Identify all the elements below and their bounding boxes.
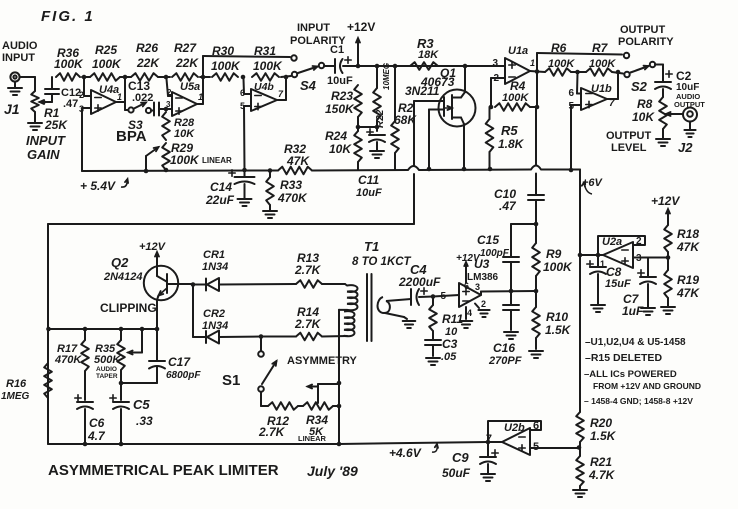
R35 wiper to rail bbox=[128, 327, 144, 355]
svg-text:3: 3 bbox=[475, 282, 480, 292]
svg-text:C2: C2 bbox=[676, 69, 692, 83]
svg-text:INPUT: INPUT bbox=[2, 52, 35, 64]
svg-text:50uF: 50uF bbox=[442, 466, 471, 480]
svg-text:2.7K: 2.7K bbox=[294, 263, 322, 277]
svg-text:2.7K: 2.7K bbox=[294, 317, 322, 331]
svg-text:R10: R10 bbox=[546, 310, 568, 324]
+12V arrow (input bias) bbox=[347, 20, 375, 66]
capacitor C12 bbox=[45, 77, 81, 110]
wire U4a pin3 to +5.4V rail bbox=[82, 108, 91, 171]
clipping label bbox=[100, 301, 157, 315]
svg-text:6: 6 bbox=[533, 420, 539, 432]
svg-text:TAPER: TAPER bbox=[96, 373, 118, 380]
svg-text:LINEAR: LINEAR bbox=[202, 156, 232, 165]
capacitor C11 bbox=[356, 127, 385, 199]
resistor R22 (10MEG) bbox=[373, 63, 391, 129]
wire Q1 source to rail bbox=[462, 124, 467, 171]
svg-text:R27: R27 bbox=[174, 41, 197, 55]
op-amp U3 (LM386) bbox=[440, 253, 498, 328]
resistor R2 bbox=[391, 64, 417, 170]
wire J1 to R1 bbox=[20, 77, 35, 91]
svg-text:100K: 100K bbox=[54, 57, 84, 71]
svg-text:U1b: U1b bbox=[591, 83, 612, 95]
svg-text:S4: S4 bbox=[300, 78, 317, 93]
asymmetry label bbox=[287, 355, 358, 367]
capacitor C14 bbox=[205, 170, 255, 207]
svg-text:4: 4 bbox=[467, 308, 472, 318]
svg-text:100K: 100K bbox=[548, 58, 575, 70]
svg-text:OUTPUT: OUTPUT bbox=[620, 24, 666, 36]
svg-text:1: 1 bbox=[530, 58, 535, 68]
op-amp U1b bbox=[568, 83, 615, 112]
svg-text:6: 6 bbox=[568, 88, 574, 99]
resistor R14 bbox=[261, 305, 347, 340]
svg-text:U2a: U2a bbox=[602, 236, 622, 248]
svg-text:10K: 10K bbox=[632, 110, 655, 124]
svg-text:25K: 25K bbox=[44, 118, 68, 132]
output polarity label bbox=[618, 24, 674, 48]
svg-text:R7: R7 bbox=[592, 41, 609, 55]
svg-text:R22: R22 bbox=[375, 109, 386, 128]
svg-text:6800pF: 6800pF bbox=[166, 370, 201, 381]
svg-text:ASYMMETRICAL PEAK LIMITER: ASYMMETRICAL PEAK LIMITER bbox=[48, 462, 279, 479]
svg-text:100K: 100K bbox=[170, 153, 200, 167]
capacitor C16 bbox=[488, 291, 522, 367]
wire U1b pin6 feedback bbox=[577, 74, 581, 94]
svg-text:R33: R33 bbox=[280, 178, 302, 192]
svg-text:GAIN: GAIN bbox=[27, 147, 60, 162]
resistor R3 bbox=[410, 36, 439, 70]
svg-text:3N211: 3N211 bbox=[405, 84, 440, 98]
svg-text:R9: R9 bbox=[546, 247, 562, 261]
svg-text:47K: 47K bbox=[676, 240, 700, 254]
svg-text:FROM +12V AND GROUND: FROM +12V AND GROUND bbox=[593, 381, 701, 391]
svg-text:100K: 100K bbox=[92, 57, 122, 71]
transformer T1 bbox=[339, 239, 415, 341]
node R25/R26 (U4a out) bbox=[123, 75, 128, 80]
svg-text:.47: .47 bbox=[499, 199, 517, 213]
resistor R12 bbox=[258, 402, 298, 439]
op-amp U2a bbox=[598, 236, 645, 269]
svg-text:–R15 DELETED: –R15 DELETED bbox=[585, 352, 662, 364]
node U2a out/C8 bbox=[596, 253, 601, 258]
svg-text:100pF: 100pF bbox=[480, 248, 510, 259]
svg-text:470K: 470K bbox=[277, 191, 308, 205]
svg-text:.33: .33 bbox=[136, 414, 153, 428]
wire U4b pin5 down bbox=[244, 106, 251, 170]
svg-text:18K: 18K bbox=[418, 49, 439, 61]
clipping rail bbox=[46, 327, 157, 332]
capacitor C17 bbox=[119, 329, 202, 385]
resistor R17 bbox=[54, 327, 89, 400]
wire +6V bus down bbox=[579, 255, 581, 412]
wire Q2 base to diodes bbox=[167, 282, 195, 287]
svg-text:2200uF: 2200uF bbox=[398, 275, 441, 289]
wire U4b pin6 feedback bbox=[244, 79, 252, 94]
svg-text:2N4124: 2N4124 bbox=[103, 271, 143, 283]
svg-text:– 1458-4 GND; 1458-8 +12V: – 1458-4 GND; 1458-8 +12V bbox=[584, 396, 693, 406]
svg-text:C14: C14 bbox=[210, 180, 232, 194]
node R36/R25 bbox=[82, 75, 88, 80]
svg-text:+12V: +12V bbox=[651, 194, 680, 208]
resistor R6 bbox=[537, 41, 575, 76]
capacitor C15 bbox=[477, 224, 519, 293]
capacitor C9 bbox=[442, 442, 498, 481]
node R27/R30 bbox=[200, 75, 210, 80]
svg-text:22K: 22K bbox=[175, 56, 199, 70]
wire U2a pin3 out bbox=[633, 255, 670, 260]
wire C15 top bbox=[511, 222, 538, 227]
svg-text:100K: 100K bbox=[589, 58, 616, 70]
svg-text:S1: S1 bbox=[222, 372, 240, 389]
svg-text:1.8K: 1.8K bbox=[498, 137, 525, 151]
svg-text:15uF: 15uF bbox=[605, 278, 631, 290]
svg-text:C17: C17 bbox=[168, 355, 191, 369]
node R23/R24 bbox=[356, 117, 377, 131]
potentiometer R29 bbox=[162, 141, 232, 172]
svg-text:J2: J2 bbox=[678, 140, 693, 155]
svg-text:R16: R16 bbox=[6, 378, 27, 390]
svg-text:C15: C15 bbox=[477, 233, 499, 247]
svg-text:10uF: 10uF bbox=[327, 75, 353, 87]
svg-text:R19: R19 bbox=[677, 273, 699, 287]
svg-text:10uF: 10uF bbox=[356, 187, 382, 199]
svg-text:J1: J1 bbox=[4, 101, 20, 117]
R34 wiper bbox=[308, 384, 340, 403]
svg-text:R26: R26 bbox=[136, 41, 158, 55]
svg-text:Q2: Q2 bbox=[111, 255, 129, 270]
wire U5a output bbox=[197, 56, 203, 104]
svg-text:22uF: 22uF bbox=[205, 193, 235, 207]
resistor R23 bbox=[325, 85, 362, 117]
+4.6V rail (bottom) bbox=[48, 442, 488, 444]
bpa label bbox=[116, 128, 147, 145]
output level label bbox=[606, 130, 652, 154]
svg-text:C6: C6 bbox=[89, 416, 105, 430]
transistor Q2 bbox=[103, 255, 178, 300]
jack J2 bbox=[666, 108, 697, 156]
node R26/R27 bbox=[160, 75, 170, 80]
notes bbox=[584, 337, 701, 406]
+12V arrow Q2 collector bbox=[139, 241, 167, 276]
diode CR1 bbox=[193, 249, 296, 291]
capacitor C4 bbox=[398, 262, 441, 305]
capacitor C13 bbox=[128, 79, 166, 116]
svg-text:LINEAR: LINEAR bbox=[298, 434, 327, 443]
wire Q1 drain to rail bbox=[463, 64, 468, 92]
potentiometer R35 bbox=[94, 327, 125, 383]
node R23 top bbox=[356, 64, 361, 69]
wire U3 output bbox=[481, 291, 536, 295]
wire U1a pin2 down bbox=[491, 78, 505, 107]
svg-text:C9: C9 bbox=[452, 450, 469, 465]
svg-text:AUDIO: AUDIO bbox=[96, 366, 117, 373]
svg-text:OUTPUT: OUTPUT bbox=[606, 130, 652, 142]
svg-text:–ALL ICs POWERED: –ALL ICs POWERED bbox=[584, 369, 677, 380]
svg-text:–U1,U2,U4 & U5-1458: –U1,U2,U4 & U5-1458 bbox=[585, 337, 686, 348]
svg-text:2: 2 bbox=[636, 236, 642, 247]
svg-text:1uF: 1uF bbox=[622, 304, 644, 318]
svg-text:4.7K: 4.7K bbox=[588, 468, 616, 482]
node U4b pin5 / C14 bbox=[242, 168, 247, 173]
resistor R18 bbox=[664, 225, 700, 258]
resistor R16 bbox=[1, 363, 52, 402]
resistor R33 bbox=[263, 168, 308, 218]
capacitor C5 bbox=[110, 383, 153, 446]
op-amp U4a bbox=[79, 84, 122, 114]
svg-text:C3: C3 bbox=[442, 337, 458, 351]
svg-text:500K: 500K bbox=[94, 354, 121, 366]
potentiometer R34 bbox=[298, 402, 339, 443]
svg-text:R4: R4 bbox=[510, 79, 526, 93]
resistor R13 bbox=[294, 251, 345, 288]
resistor R25 bbox=[84, 43, 125, 81]
capacitor C6 bbox=[75, 395, 106, 447]
node R31 right bbox=[281, 75, 291, 80]
+4.6V label bbox=[389, 444, 438, 460]
resistor R11 bbox=[429, 297, 463, 339]
wire U1b output up bbox=[607, 72, 618, 99]
resistor R10 bbox=[529, 291, 572, 358]
date bbox=[307, 463, 358, 479]
svg-text:R34: R34 bbox=[306, 413, 328, 427]
wire C1 to +12V node bbox=[343, 65, 360, 67]
svg-text:R23: R23 bbox=[331, 89, 353, 103]
svg-text:R5: R5 bbox=[501, 123, 518, 138]
+12V arrow R18 bbox=[651, 194, 680, 225]
svg-text:1N34: 1N34 bbox=[202, 320, 228, 332]
svg-text:10K: 10K bbox=[174, 128, 195, 140]
wire U4b output bbox=[277, 77, 286, 100]
box top wire bbox=[48, 223, 414, 225]
svg-text:FIG. 1: FIG. 1 bbox=[41, 8, 95, 25]
output bypass wire bbox=[537, 53, 629, 72]
audio input label bbox=[2, 40, 38, 64]
title bbox=[48, 462, 279, 479]
svg-text:1.5K: 1.5K bbox=[545, 323, 572, 337]
switch S2 bbox=[624, 62, 655, 94]
input gain label bbox=[26, 133, 66, 162]
capacitor C7 bbox=[622, 258, 656, 319]
capacitor C1 bbox=[324, 44, 353, 87]
op-amp U4b bbox=[240, 81, 284, 111]
svg-text:R8: R8 bbox=[637, 97, 653, 111]
resistor R32 bbox=[278, 142, 312, 174]
svg-text:100K: 100K bbox=[253, 59, 283, 73]
svg-text:+4.6V: +4.6V bbox=[389, 446, 422, 460]
svg-text:C1: C1 bbox=[330, 44, 344, 56]
ground below R1 bbox=[28, 112, 42, 130]
svg-text:10MEG: 10MEG bbox=[382, 63, 391, 90]
svg-text:22K: 22K bbox=[136, 56, 160, 70]
op-amp U5a bbox=[166, 81, 203, 116]
wire U1a output bbox=[530, 69, 539, 74]
svg-text:+12V: +12V bbox=[347, 20, 375, 34]
svg-text:100K: 100K bbox=[543, 260, 573, 274]
transistor Q1 (dual-gate MOSFET) bbox=[405, 66, 476, 127]
wire U4a output bbox=[116, 77, 125, 110]
+5.4V label bbox=[80, 179, 128, 193]
svg-text:+ 5.4V: + 5.4V bbox=[80, 179, 116, 193]
svg-text:+12V: +12V bbox=[139, 241, 167, 253]
svg-text:July '89: July '89 bbox=[307, 463, 358, 479]
wire U4a pin2 feedback bbox=[84, 79, 91, 96]
svg-text:C11: C11 bbox=[358, 173, 379, 187]
svg-text:1: 1 bbox=[117, 92, 122, 102]
svg-text:U1a: U1a bbox=[508, 45, 528, 57]
svg-text:2: 2 bbox=[481, 299, 486, 309]
wire U1b pin5 down bbox=[569, 105, 581, 172]
potentiometer R1 bbox=[31, 91, 68, 132]
wire U2b pin5 to divider bbox=[530, 445, 581, 450]
op-amp U2b bbox=[486, 420, 541, 455]
top rail right of C1 bbox=[358, 65, 505, 67]
resistor R9 bbox=[532, 224, 573, 293]
svg-text:R25: R25 bbox=[95, 43, 117, 57]
resistor R20 bbox=[576, 412, 616, 448]
svg-text:R24: R24 bbox=[325, 129, 347, 143]
svg-text:CLIPPING: CLIPPING bbox=[100, 301, 157, 315]
input polarity label bbox=[290, 22, 346, 47]
resistor R27 bbox=[172, 41, 199, 81]
svg-text:LEVEL: LEVEL bbox=[611, 142, 647, 154]
diode CR2 bbox=[193, 308, 261, 344]
node CR2/R14/S1 bbox=[259, 334, 264, 339]
svg-text:R20: R20 bbox=[590, 416, 612, 430]
svg-text:270PF: 270PF bbox=[488, 355, 522, 367]
potentiometer R8 bbox=[632, 97, 667, 129]
svg-text:C8: C8 bbox=[606, 265, 622, 279]
resistor R26 bbox=[125, 41, 162, 81]
svg-text:4.7: 4.7 bbox=[87, 429, 106, 443]
node R6/R7 (U1b in) bbox=[571, 70, 586, 75]
T1 center tap wire bbox=[337, 310, 342, 447]
figure label FIG. 1 bbox=[41, 8, 95, 25]
+6V corner bbox=[580, 170, 604, 256]
AGC feedback wire (rail to box) bbox=[413, 174, 415, 224]
svg-text:INPUT: INPUT bbox=[26, 133, 66, 148]
resistor R28 bbox=[162, 112, 195, 140]
svg-text:INPUT: INPUT bbox=[297, 22, 330, 34]
capacitor C10 bbox=[494, 107, 544, 224]
wire Q1 gate2 to rail bbox=[427, 110, 444, 172]
switch S3 bbox=[125, 103, 153, 133]
pot R29 wiper to rail bbox=[144, 147, 159, 173]
svg-text:C16: C16 bbox=[493, 341, 515, 355]
node R7 right bbox=[612, 70, 623, 75]
wire CR junction down bbox=[192, 285, 194, 338]
svg-text:CR2: CR2 bbox=[203, 308, 225, 320]
polarity bypass wire bbox=[203, 55, 297, 60]
svg-text:U2b: U2b bbox=[504, 422, 525, 434]
svg-text:POLARITY: POLARITY bbox=[618, 36, 674, 48]
svg-text:5: 5 bbox=[440, 291, 446, 302]
svg-text:3: 3 bbox=[166, 100, 171, 109]
svg-text:AUDIO: AUDIO bbox=[2, 40, 38, 52]
resistor R21 bbox=[573, 448, 616, 497]
svg-text:.05: .05 bbox=[441, 351, 457, 363]
op-amp U1a bbox=[492, 45, 535, 84]
svg-text:LM386: LM386 bbox=[467, 272, 499, 283]
svg-text:C13: C13 bbox=[128, 79, 150, 93]
jack J1 bbox=[4, 72, 22, 117]
svg-text:47K: 47K bbox=[286, 154, 310, 168]
svg-text:S2: S2 bbox=[631, 79, 648, 94]
svg-text:100K: 100K bbox=[502, 92, 529, 104]
resistor R5 bbox=[486, 107, 525, 171]
node R30/R31 (U4b in) bbox=[241, 75, 246, 80]
wire +6V bus to U2a bbox=[578, 253, 598, 258]
svg-text:1N34: 1N34 bbox=[202, 261, 228, 273]
resistor R31 bbox=[252, 44, 283, 81]
node C4/R11/U3 bbox=[431, 294, 459, 299]
wire U1a out to R4 bbox=[536, 72, 538, 108]
node U2b/C9 bbox=[486, 440, 491, 445]
resistor R24 bbox=[325, 129, 362, 170]
wire U5a pin2 to rail bbox=[167, 79, 173, 96]
svg-text:8 TO 1KCT: 8 TO 1KCT bbox=[352, 256, 412, 268]
node R1 wiper / C12 bbox=[42, 100, 46, 104]
svg-text:R18: R18 bbox=[677, 227, 699, 241]
resistor R30 bbox=[211, 44, 241, 81]
svg-text:.022: .022 bbox=[132, 92, 153, 104]
svg-text:T1: T1 bbox=[364, 239, 379, 254]
svg-text:ASYMMETRY: ASYMMETRY bbox=[287, 355, 358, 367]
resistor R7 bbox=[586, 41, 616, 76]
svg-text:.47: .47 bbox=[63, 98, 78, 110]
svg-text:470K: 470K bbox=[54, 354, 82, 366]
ground below R8 bbox=[656, 129, 670, 146]
wire Q2 emitter down bbox=[155, 300, 160, 331]
resistor R36 bbox=[54, 46, 84, 81]
svg-text:BPA: BPA bbox=[116, 128, 147, 145]
svg-text:U4b: U4b bbox=[254, 81, 274, 93]
svg-text:10K: 10K bbox=[329, 142, 352, 156]
switch S4 bbox=[292, 63, 324, 93]
svg-text:C5: C5 bbox=[133, 397, 150, 412]
resistor R4 bbox=[489, 79, 540, 111]
svg-text:R11: R11 bbox=[442, 312, 463, 326]
switch S1 bbox=[222, 337, 277, 407]
svg-text:47K: 47K bbox=[676, 286, 700, 300]
svg-text:1.5K: 1.5K bbox=[590, 429, 617, 443]
capacitor C2 bbox=[655, 65, 705, 110]
svg-text:R21: R21 bbox=[590, 455, 612, 469]
+5.4V rail bbox=[82, 166, 580, 172]
svg-text:3: 3 bbox=[492, 58, 498, 69]
svg-text:CR1: CR1 bbox=[203, 249, 225, 261]
svg-text:150K: 150K bbox=[325, 102, 355, 116]
wire Q1 gate1 down (AGC) bbox=[414, 101, 444, 165]
node C13/R28/U5a bbox=[164, 107, 172, 112]
capacitor C3 bbox=[425, 331, 458, 365]
svg-text:100K: 100K bbox=[211, 59, 241, 73]
capacitor C8 bbox=[587, 255, 631, 312]
resistor R19 bbox=[661, 258, 700, 315]
box left wire bbox=[47, 224, 49, 444]
svg-text:2.7K: 2.7K bbox=[258, 425, 286, 439]
svg-text:+12V: +12V bbox=[456, 253, 481, 264]
svg-text:1MEG: 1MEG bbox=[1, 391, 30, 402]
